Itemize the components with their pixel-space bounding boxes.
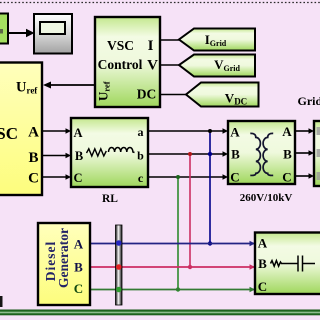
svg-text:I: I [148,38,154,54]
svg-text:VSC: VSC [0,124,18,143]
svg-text:A: A [28,125,39,141]
svg-text:A: A [74,237,84,252]
svg-text:RL: RL [102,193,118,205]
svg-text:c: c [138,171,144,185]
svg-text:C: C [282,170,291,185]
svg-text:B: B [74,260,83,275]
svg-text:B: B [283,147,292,162]
svg-text:B: B [28,150,38,166]
svg-text:a: a [138,125,144,139]
svg-text:Grid: Grid [298,94,320,108]
svg-text:b: b [137,149,144,163]
svg-text:C: C [28,171,39,187]
svg-text:C: C [230,170,239,185]
svg-text:B: B [75,149,83,163]
svg-text:DC: DC [137,87,157,102]
svg-text:B: B [258,256,267,271]
svg-text:C: C [74,281,83,296]
svg-text:A: A [73,126,82,140]
svg-text:A: A [282,124,292,139]
svg-text:A: A [230,125,240,140]
svg-text:Control: Control [98,57,143,72]
svg-text:260V/10kV: 260V/10kV [240,192,293,204]
svg-text:VSC: VSC [107,38,134,53]
svg-text:V: V [147,58,158,74]
svg-text:A: A [258,236,268,251]
svg-text:Generator: Generator [56,228,71,288]
svg-text:C: C [73,171,82,185]
svg-text:B: B [231,147,240,162]
svg-text:C: C [258,279,267,294]
